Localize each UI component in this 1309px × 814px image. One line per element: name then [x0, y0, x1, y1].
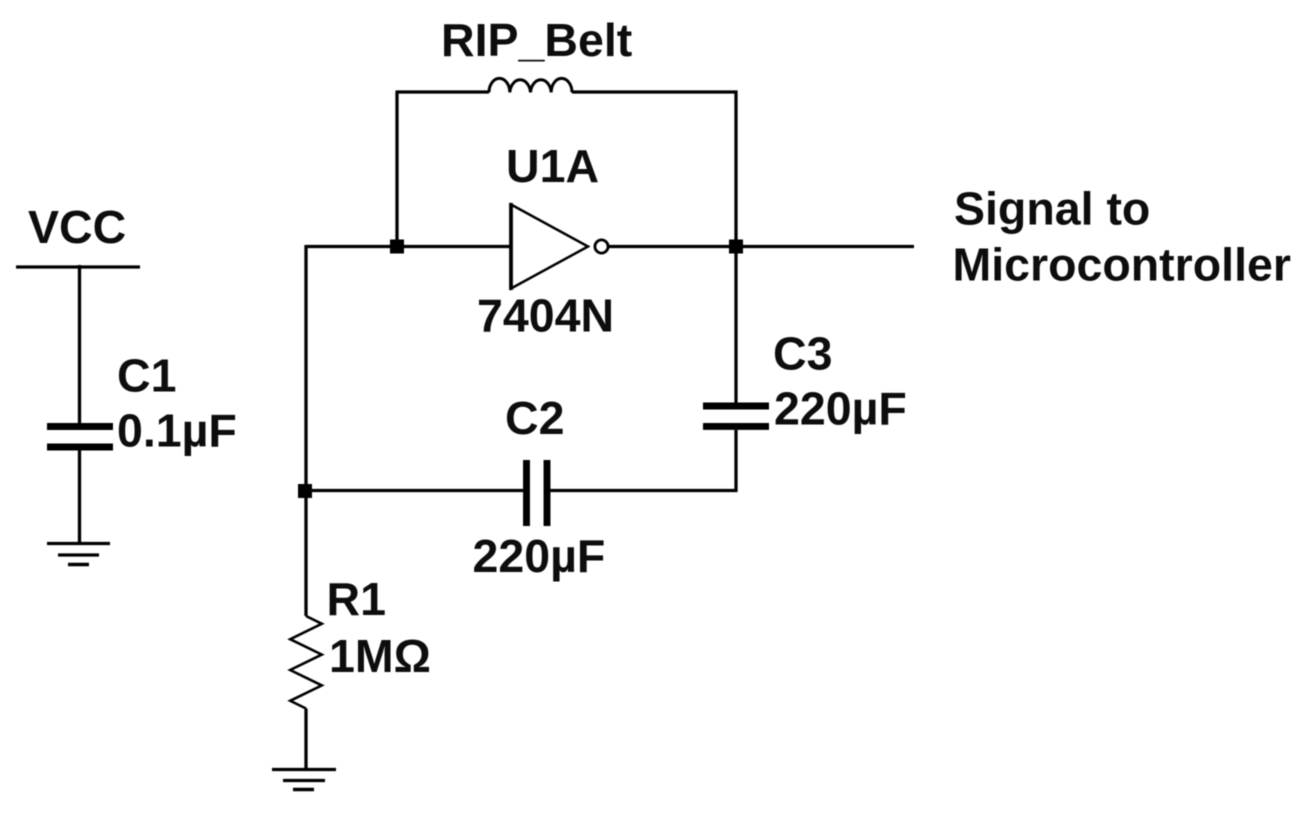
svg-text:7404N: 7404N: [477, 290, 614, 342]
svg-text:C3: C3: [773, 328, 832, 380]
svg-text:Signal to: Signal to: [954, 183, 1150, 235]
svg-text:Microcontroller: Microcontroller: [953, 239, 1291, 291]
svg-text:RIP_Belt: RIP_Belt: [441, 14, 632, 66]
svg-text:1MΩ: 1MΩ: [329, 630, 431, 682]
svg-text:220µF: 220µF: [774, 383, 907, 435]
svg-text:U1A: U1A: [506, 140, 599, 192]
svg-text:0.1µF: 0.1µF: [117, 405, 237, 457]
svg-text:C1: C1: [117, 350, 176, 402]
svg-text:220µF: 220µF: [473, 530, 606, 582]
svg-text:VCC: VCC: [28, 201, 126, 253]
svg-text:C2: C2: [505, 392, 564, 444]
svg-text:R1: R1: [327, 573, 386, 625]
